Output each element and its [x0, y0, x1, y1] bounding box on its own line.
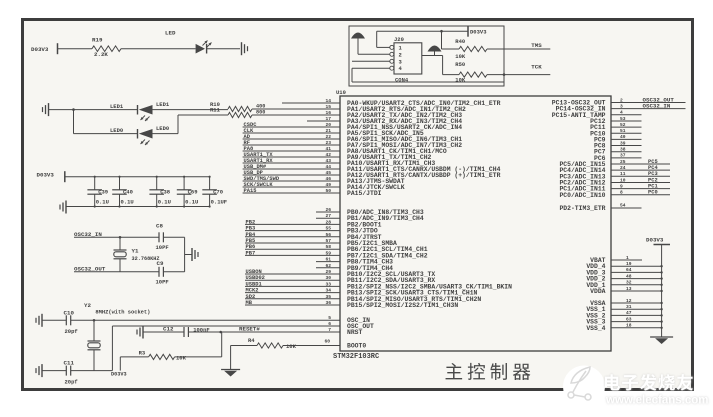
svg-text:R50: R50 — [455, 61, 465, 68]
pin 49 (PA14) — [243, 186, 340, 188]
svg-text:Y2: Y2 — [84, 302, 91, 309]
wire — [49, 109, 74, 111]
svg-text:47: 47 — [626, 310, 632, 316]
pin 9 (PC1) — [611, 188, 670, 190]
wire top rail — [65, 176, 210, 178]
wire — [74, 236, 159, 238]
svg-text:PC0: PC0 — [648, 190, 658, 196]
pin 37 (PC6) — [611, 157, 642, 159]
svg-text:20pf: 20pf — [65, 328, 79, 335]
wire TMS — [487, 48, 550, 50]
svg-text:U10: U10 — [336, 89, 346, 96]
svg-text:64: 64 — [626, 267, 632, 273]
pin 50 (PA15) — [243, 192, 340, 194]
svg-text:60: 60 — [324, 338, 330, 344]
pin 59 (PB7) — [245, 254, 340, 256]
ground (R50 top) — [428, 46, 442, 52]
wire bottom rail — [71, 206, 210, 208]
svg-text:RESET#: RESET# — [239, 325, 260, 332]
pin 32 (VDD_1) — [611, 284, 662, 286]
svg-text:62: 62 — [325, 263, 331, 269]
svg-text:49: 49 — [325, 182, 331, 188]
svg-text:PD2-TIM3_ETR: PD2-TIM3_ETR — [559, 205, 605, 212]
ground (row1 right) — [241, 42, 243, 55]
svg-text:0.1UF: 0.1UF — [211, 199, 228, 206]
pin 19 (VDD_4) — [611, 265, 662, 267]
svg-text:10PF: 10PF — [156, 244, 169, 251]
svg-text:C38: C38 — [160, 188, 171, 195]
svg-text:54: 54 — [620, 203, 626, 209]
node junction — [93, 319, 96, 322]
wire OSC_IN — [42, 319, 66, 321]
pin 35 (PB14) — [245, 298, 340, 300]
svg-text:63: 63 — [626, 316, 632, 322]
svg-text:C12: C12 — [163, 326, 174, 333]
pin 56 (PB4) — [245, 236, 340, 238]
svg-text:OSC32_IN: OSC32_IN — [74, 231, 102, 238]
pin 34 (PB13) — [245, 292, 340, 294]
pin 47 (VSS_2) — [611, 314, 662, 316]
pin 44 (PA11) — [243, 168, 340, 170]
svg-text:R4: R4 — [248, 337, 255, 344]
svg-text:PB5: PB5 — [246, 238, 256, 244]
svg-text:PC4: PC4 — [648, 165, 658, 171]
pin 27 (PB1) — [316, 217, 340, 219]
ground (C12) — [142, 326, 144, 339]
svg-text:20pf: 20pf — [65, 378, 79, 385]
svg-text:0.1U: 0.1U — [121, 199, 134, 206]
svg-text:PC5: PC5 — [648, 159, 658, 165]
capacitor C39 — [94, 177, 96, 190]
pin 53 (PC12) — [611, 120, 642, 122]
LED D0 (LED0) — [137, 129, 139, 139]
svg-text:TMS: TMS — [531, 42, 542, 49]
wire — [58, 48, 93, 50]
ground (BOOT0) — [221, 369, 240, 371]
svg-text:PB3: PB3 — [246, 226, 256, 232]
svg-text:37: 37 — [620, 153, 626, 159]
group box (JTAG) — [349, 26, 504, 86]
wire pin1 to D03V3 — [377, 46, 390, 48]
pin 10 (PC2) — [611, 181, 670, 183]
wire pin3 — [352, 60, 390, 62]
LED D1 (LED1) — [137, 105, 139, 115]
capacitor C40 — [119, 177, 121, 190]
svg-text:27: 27 — [325, 213, 331, 219]
svg-text:41: 41 — [325, 146, 331, 152]
svg-text:8: 8 — [620, 190, 623, 196]
svg-text:PC3: PC3 — [648, 171, 658, 177]
svg-text:MB: MB — [246, 300, 253, 306]
svg-text:7: 7 — [328, 327, 331, 333]
svg-text:56: 56 — [325, 232, 331, 238]
svg-text:PB7: PB7 — [246, 250, 256, 256]
pin 51 (PC10) — [611, 132, 642, 134]
svg-text:10K: 10K — [455, 53, 466, 60]
wire — [74, 109, 138, 111]
pin 52 (PC11) — [611, 126, 642, 128]
svg-text:6: 6 — [328, 321, 331, 327]
svg-text:52: 52 — [620, 122, 626, 128]
ground (caps bank) — [65, 201, 67, 214]
svg-text:9: 9 — [620, 183, 623, 189]
svg-text:J20: J20 — [394, 36, 404, 43]
svg-text:33: 33 — [325, 281, 331, 287]
node junction — [119, 236, 122, 239]
pin 21 (PA5) — [243, 132, 340, 134]
wire — [74, 271, 159, 273]
wire — [252, 108, 340, 110]
pin 18 (VSS_4) — [611, 327, 662, 329]
svg-text:www.elecfans.com: www.elecfans.com — [605, 395, 708, 407]
resistor R3 — [119, 357, 121, 371]
svg-text:PA15/JTDI: PA15/JTDI — [347, 190, 382, 197]
wire power rail — [661, 245, 663, 338]
capacitor C69 — [183, 177, 185, 190]
svg-text:44: 44 — [325, 164, 331, 170]
svg-text:LED1: LED1 — [156, 101, 170, 108]
svg-text:LED0: LED0 — [110, 127, 123, 134]
crystal Y2 body — [93, 320, 95, 341]
svg-text:10K: 10K — [455, 77, 466, 84]
pin 28 (PB2) — [245, 223, 340, 225]
svg-text:VSS_4: VSS_4 — [586, 325, 605, 332]
wire BOOT0 — [231, 345, 257, 347]
svg-text:48: 48 — [626, 273, 632, 279]
pin 55 (PB3) — [245, 230, 340, 232]
svg-text:OSC32_OUT: OSC32_OUT — [74, 265, 106, 272]
svg-text:24: 24 — [620, 165, 626, 171]
svg-text:40: 40 — [620, 134, 626, 140]
svg-text:C8: C8 — [156, 223, 163, 230]
svg-text:46: 46 — [325, 176, 331, 182]
wire NRST / RESET# — [143, 331, 184, 333]
wire pin4 loop — [352, 67, 390, 69]
node junction — [72, 108, 75, 111]
svg-text:21: 21 — [325, 128, 331, 134]
svg-text:C10: C10 — [64, 309, 75, 316]
pin 25 (PC5) — [611, 163, 670, 165]
svg-text:57: 57 — [325, 238, 331, 244]
svg-text:18: 18 — [626, 323, 632, 329]
svg-text:USBD02: USBD02 — [246, 275, 265, 281]
pin 8 (PC0) — [611, 194, 670, 196]
svg-text:55: 55 — [325, 226, 331, 232]
svg-text:D03V3: D03V3 — [37, 172, 55, 179]
pin 42 (PA9) — [243, 156, 340, 158]
svg-text:17: 17 — [325, 116, 331, 122]
title text — [446, 363, 531, 380]
svg-text:C9: C9 — [157, 260, 164, 267]
svg-text:35: 35 — [325, 294, 331, 300]
pin 57 (PB5) — [245, 242, 340, 244]
wire — [163, 236, 184, 238]
ground (32k osc) — [191, 248, 193, 261]
pin 48 (VDD_2) — [611, 278, 662, 280]
svg-text:26: 26 — [325, 207, 331, 213]
wire — [230, 346, 232, 370]
svg-text:3: 3 — [620, 103, 623, 109]
svg-text:13: 13 — [626, 286, 632, 292]
pin 26 (PB0) — [316, 211, 340, 213]
pin 33 (PB12) — [245, 285, 340, 287]
pin 1 (VBAT) — [611, 259, 642, 261]
pin 36 (PB15) — [245, 304, 340, 306]
svg-text:30: 30 — [325, 275, 331, 281]
pin 12 (VSSA) — [611, 302, 662, 304]
node junction — [219, 331, 222, 334]
svg-text:100nF: 100nF — [193, 327, 210, 334]
pin 20 (PA4) — [243, 126, 340, 128]
svg-text:36: 36 — [325, 300, 331, 306]
pin 29 (PB10) — [245, 273, 340, 275]
pin 38 (PC7) — [611, 151, 642, 153]
pin 58 (PB6) — [245, 248, 340, 250]
svg-text:SD2: SD2 — [246, 294, 256, 300]
svg-text:R19: R19 — [92, 37, 103, 44]
svg-text:34: 34 — [325, 288, 331, 294]
capacitor C70 — [209, 177, 211, 190]
capacitor C38 — [156, 177, 158, 190]
svg-text:C69: C69 — [188, 188, 198, 195]
svg-text:D03V3: D03V3 — [470, 29, 487, 36]
svg-text:53: 53 — [620, 116, 626, 122]
wire — [42, 370, 66, 372]
ground (C10) — [41, 314, 43, 327]
svg-text:59: 59 — [325, 250, 331, 256]
svg-text:61: 61 — [325, 257, 331, 263]
svg-text:C11: C11 — [64, 360, 75, 367]
pin 54 (PD2) — [611, 207, 642, 209]
svg-text:BOOT0: BOOT0 — [347, 343, 366, 350]
svg-text:C39: C39 — [98, 188, 108, 195]
pin 3 (PC14-OSC32_IN) — [611, 108, 686, 110]
svg-text:4: 4 — [620, 110, 623, 116]
svg-text:PC0/ADC_IN10: PC0/ADC_IN10 — [559, 192, 605, 199]
svg-text:USBON: USBON — [246, 269, 262, 275]
wire TCK — [487, 74, 550, 76]
svg-text:PB6: PB6 — [246, 244, 256, 250]
svg-text:38: 38 — [620, 147, 626, 153]
svg-text:STM32F103RC: STM32F103RC — [333, 353, 379, 361]
svg-text:10: 10 — [620, 177, 626, 183]
wire — [163, 271, 184, 273]
svg-text:R40: R40 — [455, 38, 465, 45]
svg-text:58: 58 — [325, 244, 331, 250]
wire — [153, 133, 179, 135]
pin 23 (PA7) — [243, 144, 340, 146]
svg-text:29: 29 — [325, 269, 331, 275]
wire — [121, 48, 196, 50]
watermark text 电子发烧友 — [605, 374, 693, 391]
svg-text:39: 39 — [620, 140, 626, 146]
svg-text:25: 25 — [620, 159, 626, 165]
svg-text:PB4: PB4 — [246, 232, 256, 238]
pin 24 (PC4) — [611, 169, 670, 171]
svg-text:OSC32_IN: OSC32_IN — [643, 102, 671, 109]
svg-text:0.1U: 0.1U — [96, 199, 109, 206]
ground (C11) — [41, 364, 43, 377]
pin 64 (VDD_3) — [611, 271, 662, 273]
pin 13 (VDDA) — [611, 290, 662, 292]
svg-text:USBD1: USBD1 — [246, 281, 262, 287]
svg-text:11: 11 — [620, 171, 626, 177]
pin 4 (PC15-ANTI_TAMP) — [611, 114, 642, 116]
svg-text:2.2K: 2.2K — [94, 51, 108, 58]
wire — [207, 48, 240, 50]
svg-text:0.1U: 0.1U — [158, 199, 171, 206]
svg-text:C70: C70 — [213, 188, 223, 195]
pin 61 (PB8) — [316, 261, 340, 263]
pin 63 (VSS_3) — [611, 321, 662, 323]
svg-text:10PF: 10PF — [156, 279, 169, 286]
svg-text:15: 15 — [325, 104, 331, 110]
pin 11 (PC3) — [611, 175, 670, 177]
svg-text:22: 22 — [325, 134, 331, 140]
svg-text:NRST: NRST — [347, 329, 363, 336]
ground (LED block left) — [48, 103, 50, 116]
ground (VSS rail) — [650, 336, 673, 338]
pin 17 (PA3) — [307, 120, 340, 122]
pin 41 (PA8) — [243, 150, 340, 152]
svg-text:PC1: PC1 — [648, 183, 658, 189]
ground (J20 pin2) — [351, 33, 365, 39]
wire — [422, 55, 443, 57]
wire — [153, 109, 229, 111]
svg-text:D03V3: D03V3 — [646, 237, 664, 244]
svg-text:8MHZ(with socket): 8MHZ(with socket) — [95, 309, 150, 315]
watermark leaf icon — [568, 367, 591, 400]
svg-text:10K: 10K — [286, 343, 297, 350]
watermark logo circle — [563, 366, 605, 408]
svg-text:31: 31 — [626, 304, 632, 310]
wire OSC_OUT — [112, 325, 340, 327]
svg-text:20: 20 — [325, 122, 331, 128]
pin 14 (PA0) — [282, 102, 340, 104]
svg-text:32.768KHZ: 32.768KHZ — [132, 256, 160, 262]
svg-text:PC2: PC2 — [648, 177, 658, 183]
pin 43 (PA10) — [243, 162, 340, 164]
svg-text:C40: C40 — [123, 188, 133, 195]
resistor R40 — [441, 31, 443, 49]
pin 22 (PA6) — [243, 138, 340, 140]
svg-text:43: 43 — [325, 158, 331, 164]
svg-text:28: 28 — [325, 219, 331, 225]
svg-text:PA15: PA15 — [244, 188, 257, 194]
svg-text:LED: LED — [165, 30, 176, 37]
svg-text:LED1: LED1 — [110, 103, 124, 110]
svg-text:12: 12 — [626, 298, 632, 304]
pin 39 (PC8) — [611, 145, 642, 147]
svg-text:PB2: PB2 — [246, 219, 256, 225]
svg-text:5: 5 — [328, 315, 331, 321]
svg-text:45: 45 — [325, 170, 331, 176]
svg-text:Y1: Y1 — [132, 248, 139, 255]
svg-text:R11: R11 — [210, 106, 221, 113]
pin 31 (VSS_1) — [611, 308, 662, 310]
svg-text:10K: 10K — [176, 354, 187, 361]
svg-text:TCK: TCK — [531, 64, 542, 71]
svg-text:D03V3: D03V3 — [31, 46, 49, 53]
svg-text:MCK2: MCK2 — [246, 288, 259, 294]
wire right rail — [184, 237, 186, 271]
svg-text:32: 32 — [626, 280, 632, 286]
svg-text:23: 23 — [325, 140, 331, 146]
wire — [175, 356, 222, 358]
svg-text:14: 14 — [325, 98, 331, 104]
power net D03V3 (JTAG) — [467, 26, 469, 37]
svg-text:51: 51 — [620, 128, 626, 134]
crystal Y1 32.768KHZ — [119, 237, 121, 250]
svg-text:D03V3: D03V3 — [111, 372, 127, 378]
svg-text:16: 16 — [325, 110, 331, 116]
svg-text:R3: R3 — [139, 349, 146, 356]
pin 40 (PC9) — [611, 138, 642, 140]
svg-text:LED0: LED0 — [156, 125, 169, 132]
svg-text:0.1U: 0.1U — [185, 199, 198, 206]
wire — [357, 39, 359, 55]
svg-text:19: 19 — [626, 261, 632, 267]
svg-text:2: 2 — [399, 51, 402, 58]
svg-text:800: 800 — [256, 109, 265, 115]
pin 45 (PA12) — [243, 174, 340, 176]
svg-text:1: 1 — [626, 255, 629, 261]
pin 2 (PC13-OSC32_OUT) — [611, 102, 686, 104]
svg-text:50: 50 — [325, 188, 331, 194]
svg-text:2: 2 — [620, 97, 623, 103]
IC U10 STM32F103RC body — [340, 96, 611, 351]
node junction — [503, 73, 506, 76]
svg-text:VDDA: VDDA — [590, 288, 606, 295]
node junction — [440, 30, 443, 33]
pin 62 (PB9) — [316, 267, 340, 269]
svg-text:42: 42 — [325, 152, 331, 158]
pin 30 (PB11) — [245, 279, 340, 281]
pin 46 (PA13) — [243, 180, 340, 182]
svg-text:PB15/SPI2_MOSI/I2S2/TIM1_CH3N: PB15/SPI2_MOSI/I2S2/TIM1_CH3N — [347, 302, 458, 309]
